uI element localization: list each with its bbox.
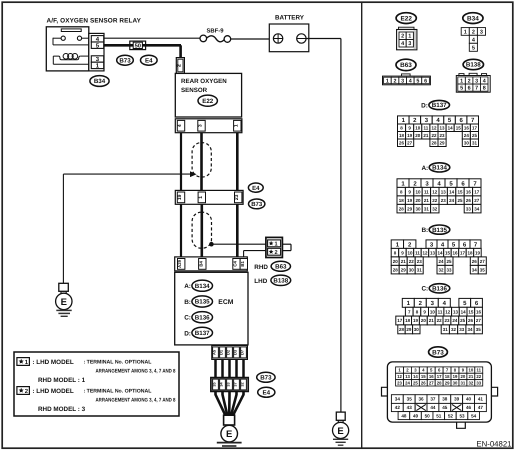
svg-text:10: 10 xyxy=(415,189,421,194)
svg-text:25: 25 xyxy=(457,198,463,203)
svg-text:53: 53 xyxy=(459,413,465,418)
svg-text:13: 13 xyxy=(405,374,410,379)
joint connector row pins 35,34,33,37,32 xyxy=(211,378,248,392)
wire: fuse to battery xyxy=(231,38,270,40)
svg-text:20: 20 xyxy=(393,259,399,264)
svg-text:2: 2 xyxy=(468,78,471,84)
svg-text:30: 30 xyxy=(414,327,420,332)
svg-text:54: 54 xyxy=(471,413,477,418)
svg-text:16: 16 xyxy=(429,374,434,379)
svg-text:11: 11 xyxy=(423,125,428,130)
svg-text:17: 17 xyxy=(437,374,442,379)
svg-text:15: 15 xyxy=(456,125,462,130)
svg-text:23: 23 xyxy=(444,318,450,323)
svg-text:11: 11 xyxy=(415,250,420,255)
svg-text:13: 13 xyxy=(430,250,436,255)
svg-text:28: 28 xyxy=(399,327,405,332)
svg-text:35: 35 xyxy=(407,397,413,402)
svg-text:39: 39 xyxy=(454,397,460,402)
legend note box (*1/*2 model explanation) xyxy=(14,352,179,416)
svg-text:18: 18 xyxy=(399,198,405,203)
svg-text:34: 34 xyxy=(468,327,474,332)
svg-text:B4: B4 xyxy=(198,261,203,267)
svg-text:5: 5 xyxy=(416,78,419,84)
wire: sensor pin 1 down to row 23 xyxy=(236,133,239,191)
svg-text:2: 2 xyxy=(275,250,278,256)
svg-text:49: 49 xyxy=(413,413,419,418)
svg-text:1: 1 xyxy=(198,196,204,199)
svg-text:24: 24 xyxy=(449,198,455,203)
svg-text:12: 12 xyxy=(431,125,437,130)
wire: sensor pin 4 down to row 19 xyxy=(180,133,182,191)
svg-text:B1: B1 xyxy=(240,261,245,267)
connector B138 pin layout xyxy=(456,73,490,92)
label LHD B138 xyxy=(254,275,290,285)
label RHD B63 xyxy=(254,261,290,271)
svg-text:B:: B: xyxy=(421,227,428,234)
svg-text:D7: D7 xyxy=(240,349,245,355)
svg-text:27: 27 xyxy=(429,380,434,385)
svg-text:ARRANGEMENT AMONG 3, 4, 7 AND: ARRANGEMENT AMONG 3, 4, 7 AND 8 xyxy=(96,368,176,374)
svg-text:34: 34 xyxy=(395,397,401,402)
svg-text:20: 20 xyxy=(415,133,421,138)
svg-text:47: 47 xyxy=(478,405,484,410)
svg-text:20: 20 xyxy=(421,318,427,323)
svg-text:1: 1 xyxy=(386,78,389,84)
connector D:B137 pin grid xyxy=(398,116,479,147)
svg-text:17: 17 xyxy=(460,250,466,255)
svg-text:14: 14 xyxy=(449,189,455,194)
svg-text:7: 7 xyxy=(475,86,478,92)
svg-text:E: E xyxy=(226,429,232,440)
svg-text:29: 29 xyxy=(407,206,413,211)
svg-text:E: E xyxy=(61,297,67,308)
svg-text:16: 16 xyxy=(466,189,472,194)
connector label B73 (relay) xyxy=(117,55,134,65)
svg-text:22: 22 xyxy=(409,259,415,264)
svg-text:26: 26 xyxy=(421,380,426,385)
svg-text:3: 3 xyxy=(198,124,204,127)
ground E (left) xyxy=(56,283,72,316)
label C: B136 xyxy=(184,312,212,323)
svg-text:6: 6 xyxy=(424,78,427,84)
svg-text:15: 15 xyxy=(421,374,426,379)
svg-text:35: 35 xyxy=(480,267,486,272)
wire: relay pin 5 to rear O2 sensor pin 2 (thick) xyxy=(104,45,181,57)
wire: pin 23 down to ECM pin C4 xyxy=(236,204,239,257)
svg-text:31: 31 xyxy=(424,206,430,211)
svg-text:25: 25 xyxy=(446,259,452,264)
svg-text:51: 51 xyxy=(436,413,442,418)
svg-text:22: 22 xyxy=(476,374,481,379)
svg-text:50: 50 xyxy=(425,413,431,418)
wire: upper shield drain to left ground xyxy=(63,171,196,283)
ground E (ECM) xyxy=(217,415,242,446)
wires: ECM bottom pins down (5 thick wires) xyxy=(216,359,244,377)
label D:B137 (panel) xyxy=(421,100,449,109)
shield (upper) dashed loop xyxy=(192,143,211,177)
fuse 50 box on heater wire xyxy=(130,41,146,50)
relay A/F oxygen sensor relay body xyxy=(46,27,89,71)
svg-text:28: 28 xyxy=(399,206,405,211)
wire: lower shield to connector *1 xyxy=(211,243,266,245)
svg-text:17: 17 xyxy=(472,125,478,130)
svg-text:37: 37 xyxy=(430,397,436,402)
svg-text:D2: D2 xyxy=(226,349,231,355)
svg-text:43: 43 xyxy=(407,405,413,410)
connector label E4 (bottom) xyxy=(258,387,275,397)
svg-text:32: 32 xyxy=(451,327,457,332)
wire: relay pin 4 to fuse SBF-9 (to battery +) xyxy=(104,37,200,39)
svg-text:23: 23 xyxy=(441,198,447,203)
svg-text:ECM: ECM xyxy=(218,299,233,306)
svg-text:19: 19 xyxy=(475,250,481,255)
svg-text:22: 22 xyxy=(432,198,438,203)
svg-text:24: 24 xyxy=(452,318,458,323)
svg-text:RHD: RHD xyxy=(254,264,268,271)
svg-text:14: 14 xyxy=(413,374,418,379)
svg-text:32: 32 xyxy=(432,206,438,211)
svg-text:18: 18 xyxy=(467,250,473,255)
svg-text:RHD MODEL : 1: RHD MODEL : 1 xyxy=(38,377,86,384)
svg-text:38: 38 xyxy=(442,397,448,402)
svg-text:29: 29 xyxy=(445,380,450,385)
svg-text:21: 21 xyxy=(429,318,435,323)
svg-text:31: 31 xyxy=(443,327,449,332)
svg-text:33: 33 xyxy=(227,382,231,386)
svg-text:4: 4 xyxy=(483,78,486,84)
svg-text:31: 31 xyxy=(472,140,478,145)
svg-text:25: 25 xyxy=(413,380,418,385)
connector C:B136 pin grid xyxy=(396,298,483,333)
svg-text:23: 23 xyxy=(440,133,446,138)
svg-text:REAR OXYGEN: REAR OXYGEN xyxy=(181,78,227,85)
svg-text:E4: E4 xyxy=(145,57,153,64)
svg-text:2: 2 xyxy=(472,29,475,35)
svg-text:23: 23 xyxy=(234,194,240,200)
svg-text:A29: A29 xyxy=(177,259,182,267)
svg-text:B134: B134 xyxy=(195,283,210,290)
connector label B73 (intermediate) xyxy=(249,199,265,209)
wire: battery negative to right ground xyxy=(306,39,341,413)
svg-text:11: 11 xyxy=(476,368,481,373)
svg-text:48: 48 xyxy=(401,413,407,418)
svg-text:: LHD MODEL: : LHD MODEL xyxy=(32,359,73,366)
svg-text:29: 29 xyxy=(401,267,407,272)
svg-text:24: 24 xyxy=(438,259,444,264)
svg-text:B135: B135 xyxy=(432,227,447,234)
svg-text:SBF-9: SBF-9 xyxy=(206,27,224,34)
svg-text:D:: D: xyxy=(421,102,428,109)
svg-text:18: 18 xyxy=(445,374,450,379)
svg-text:32: 32 xyxy=(468,380,473,385)
svg-text:13: 13 xyxy=(453,309,459,314)
wire: sensor pin 3 down to row 1 (shielded) xyxy=(200,133,203,191)
svg-text:1: 1 xyxy=(275,242,278,248)
svg-text:D1: D1 xyxy=(219,349,224,355)
svg-text:A:: A: xyxy=(184,283,191,290)
connector label E4 (relay) xyxy=(141,55,158,65)
svg-text:A/F, OXYGEN SENSOR RELAY: A/F, OXYGEN SENSOR RELAY xyxy=(47,18,142,25)
svg-text:19: 19 xyxy=(413,318,419,323)
svg-text:35: 35 xyxy=(476,327,482,332)
svg-text:24: 24 xyxy=(464,133,470,138)
svg-text:B134: B134 xyxy=(432,165,447,172)
svg-text:37: 37 xyxy=(234,382,238,386)
svg-text:30: 30 xyxy=(464,140,470,145)
svg-text:40: 40 xyxy=(466,397,472,402)
svg-text:EN-04821: EN-04821 xyxy=(476,439,511,448)
label C:B136 (panel) xyxy=(421,284,449,293)
svg-text:10: 10 xyxy=(430,309,436,314)
fuse SBF-9 xyxy=(200,35,231,42)
svg-text:16: 16 xyxy=(476,309,482,314)
svg-text:35: 35 xyxy=(213,382,217,386)
relay switch contacts xyxy=(53,36,89,45)
svg-text:12: 12 xyxy=(432,189,438,194)
wire: *2 to ECM pin B1 xyxy=(244,251,266,257)
svg-text:28: 28 xyxy=(431,140,437,145)
connector label B63 (panel) xyxy=(396,59,416,70)
svg-text:11: 11 xyxy=(424,189,429,194)
svg-text:12: 12 xyxy=(422,250,428,255)
svg-text:10: 10 xyxy=(468,368,473,373)
battery xyxy=(269,24,309,52)
svg-text:23: 23 xyxy=(397,380,402,385)
svg-text:B137: B137 xyxy=(195,330,210,337)
sensor connector row pins 4,3,1 xyxy=(175,119,242,133)
svg-text:2: 2 xyxy=(394,78,397,84)
svg-text:1: 1 xyxy=(464,29,467,35)
svg-text:20: 20 xyxy=(415,198,421,203)
svg-text:E: E xyxy=(337,426,343,437)
svg-text:27: 27 xyxy=(407,140,413,145)
svg-text:B136: B136 xyxy=(432,286,447,293)
svg-text:33: 33 xyxy=(476,380,481,385)
relay coil xyxy=(53,54,89,65)
svg-text:18: 18 xyxy=(399,133,405,138)
connector label E4 (intermediate) xyxy=(248,183,263,192)
svg-text:E4: E4 xyxy=(252,185,260,192)
svg-text:15: 15 xyxy=(445,250,451,255)
svg-text:30: 30 xyxy=(415,206,421,211)
svg-text:33: 33 xyxy=(466,206,472,211)
svg-text:E22: E22 xyxy=(202,98,214,105)
svg-text:B138: B138 xyxy=(466,62,481,69)
svg-text:17: 17 xyxy=(474,189,480,194)
bracket right of *1/*2 connector xyxy=(282,244,291,250)
svg-text:31: 31 xyxy=(417,267,423,272)
svg-text:10: 10 xyxy=(407,250,413,255)
wire: pin 1 down to ECM pin B4 (shielded) xyxy=(201,204,204,257)
svg-text:4: 4 xyxy=(177,124,183,127)
svg-text:21: 21 xyxy=(423,133,429,138)
svg-text:8: 8 xyxy=(483,86,486,92)
label A: B134 xyxy=(184,280,212,291)
svg-text:3: 3 xyxy=(475,78,478,84)
svg-text:19: 19 xyxy=(407,198,413,203)
svg-text:2: 2 xyxy=(177,64,183,67)
svg-text:19: 19 xyxy=(407,133,413,138)
svg-text:LHD: LHD xyxy=(254,278,267,285)
svg-text:26: 26 xyxy=(472,259,478,264)
funnel wires converging to ground joint xyxy=(216,391,244,415)
svg-text:B63: B63 xyxy=(275,264,287,271)
connector label B34 (panel) xyxy=(463,13,483,24)
svg-text:C:: C: xyxy=(184,315,191,322)
svg-text:23: 23 xyxy=(417,259,423,264)
svg-text:31: 31 xyxy=(461,380,466,385)
svg-text:41: 41 xyxy=(478,397,484,402)
svg-text:1: 1 xyxy=(408,34,411,40)
shield (lower) dashed loop xyxy=(192,212,211,248)
connector label B73 (panel) xyxy=(429,347,448,357)
svg-text:BATTERY: BATTERY xyxy=(275,15,305,22)
svg-text:: TERMINAL No. OPTIONAL: : TERMINAL No. OPTIONAL xyxy=(84,359,153,365)
ground E (battery side) xyxy=(333,412,349,445)
svg-text:4: 4 xyxy=(409,78,412,84)
svg-text:3: 3 xyxy=(401,78,404,84)
svg-text:11: 11 xyxy=(438,309,443,314)
svg-text:34: 34 xyxy=(474,206,480,211)
svg-text:RHD MODEL : 3: RHD MODEL : 3 xyxy=(38,406,86,413)
label B: B135 ECM xyxy=(184,296,234,307)
svg-text:1: 1 xyxy=(460,78,463,84)
svg-text:32: 32 xyxy=(438,267,444,272)
svg-text:B135: B135 xyxy=(195,299,210,306)
ECM box xyxy=(175,272,248,345)
svg-text:B34: B34 xyxy=(467,15,479,22)
svg-text:26: 26 xyxy=(466,198,472,203)
rear oxygen sensor box xyxy=(175,73,241,117)
svg-text:25: 25 xyxy=(460,318,466,323)
connector label B34 xyxy=(90,76,109,87)
svg-text:33: 33 xyxy=(446,267,452,272)
svg-text:10: 10 xyxy=(415,125,421,130)
svg-text:C:: C: xyxy=(421,286,428,293)
svg-text:27: 27 xyxy=(480,259,486,264)
svg-text:5: 5 xyxy=(472,45,475,51)
svg-text:3: 3 xyxy=(408,41,411,47)
svg-text:17: 17 xyxy=(397,318,403,323)
label D: B137 xyxy=(184,327,212,338)
svg-text:E4: E4 xyxy=(263,390,271,397)
svg-text:27: 27 xyxy=(476,318,482,323)
connector label E22 (panel) xyxy=(396,13,416,24)
connector B:B135 pin grid xyxy=(391,240,486,274)
connector label E22 (in sensor) xyxy=(198,95,217,106)
svg-text:16: 16 xyxy=(464,125,470,130)
svg-text:A5: A5 xyxy=(212,349,217,355)
svg-text:32: 32 xyxy=(241,382,245,386)
svg-text:C4: C4 xyxy=(233,261,238,267)
relay internal top bar xyxy=(61,29,81,32)
svg-text:12: 12 xyxy=(445,309,451,314)
svg-text:30: 30 xyxy=(453,380,458,385)
svg-text:26: 26 xyxy=(399,140,405,145)
connector B63 pin layout xyxy=(383,74,431,85)
label B:B135 (panel) xyxy=(421,225,449,234)
svg-text:B136: B136 xyxy=(195,314,210,321)
svg-text:21: 21 xyxy=(401,259,407,264)
svg-text:22: 22 xyxy=(437,318,443,323)
ECM top connector row pins A29,B4,C4,B1 xyxy=(175,257,248,271)
junction dot: lower shield drain xyxy=(209,242,214,247)
svg-text:13: 13 xyxy=(440,125,446,130)
svg-text:E22: E22 xyxy=(401,15,413,22)
svg-text:B73: B73 xyxy=(432,349,444,356)
svg-text:B34: B34 xyxy=(94,78,106,85)
svg-text:15: 15 xyxy=(468,309,474,314)
svg-text:B:: B: xyxy=(184,299,191,306)
svg-text:: LHD MODEL: : LHD MODEL xyxy=(32,388,73,395)
svg-text:ARRANGEMENT AMONG 3, 4, 7 AND: ARRANGEMENT AMONG 3, 4, 7 AND 8 xyxy=(96,398,176,404)
svg-text:1: 1 xyxy=(233,124,239,127)
svg-text:5: 5 xyxy=(460,86,463,92)
svg-text:42: 42 xyxy=(395,405,401,410)
svg-text:21: 21 xyxy=(424,198,430,203)
connector label B138 (panel) xyxy=(463,59,483,69)
svg-text:B73: B73 xyxy=(119,57,131,64)
svg-text:30: 30 xyxy=(409,267,415,272)
svg-text:D:: D: xyxy=(184,330,191,337)
svg-text:20: 20 xyxy=(461,374,466,379)
svg-text:B138: B138 xyxy=(273,278,288,285)
svg-text:3: 3 xyxy=(480,29,483,35)
svg-text:19: 19 xyxy=(177,194,183,200)
svg-text:33: 33 xyxy=(459,327,465,332)
ECM bottom connector row pins A5,D1,D2,D3,D7 xyxy=(212,345,248,359)
svg-text:12: 12 xyxy=(397,374,402,379)
svg-text:6: 6 xyxy=(468,86,471,92)
svg-text:2: 2 xyxy=(401,34,404,40)
label A:B134 (panel) xyxy=(421,163,449,172)
svg-text:19: 19 xyxy=(453,374,458,379)
svg-text:29: 29 xyxy=(440,140,446,145)
svg-text:B137: B137 xyxy=(432,102,447,109)
svg-text:14: 14 xyxy=(461,309,467,314)
svg-text:13: 13 xyxy=(441,189,447,194)
svg-text:36: 36 xyxy=(419,397,425,402)
svg-text:22: 22 xyxy=(431,133,437,138)
connector *1/*2 (RHD B63 / LHD B138) xyxy=(266,237,283,257)
svg-text:14: 14 xyxy=(448,125,454,130)
svg-text:26: 26 xyxy=(468,318,474,323)
svg-text:34: 34 xyxy=(472,267,478,272)
svg-text:16: 16 xyxy=(452,250,458,255)
svg-text:27: 27 xyxy=(474,198,480,203)
svg-text:: TERMINAL No. OPTIONAL: : TERMINAL No. OPTIONAL xyxy=(84,388,153,394)
svg-text:52: 52 xyxy=(448,413,454,418)
connector B73 pin grid xyxy=(382,362,498,428)
svg-text:B73: B73 xyxy=(260,375,272,382)
svg-text:44: 44 xyxy=(430,405,436,410)
sensor pin 2 box xyxy=(176,58,184,74)
svg-text:A:: A: xyxy=(421,165,428,172)
svg-text:25: 25 xyxy=(472,133,478,138)
svg-text:28: 28 xyxy=(437,380,442,385)
connector E22 pin layout xyxy=(397,27,417,50)
intermediate connector row pins 19,1,23 xyxy=(175,190,243,204)
svg-text:24: 24 xyxy=(405,380,410,385)
connector label B73 (bottom) xyxy=(257,372,275,382)
svg-text:46: 46 xyxy=(466,405,472,410)
svg-text:B63: B63 xyxy=(400,62,412,69)
svg-text:D3: D3 xyxy=(233,349,238,355)
svg-text:29: 29 xyxy=(406,327,412,332)
svg-text:18: 18 xyxy=(405,318,411,323)
wire: pin 19 down to ECM pin A29 xyxy=(180,204,182,257)
